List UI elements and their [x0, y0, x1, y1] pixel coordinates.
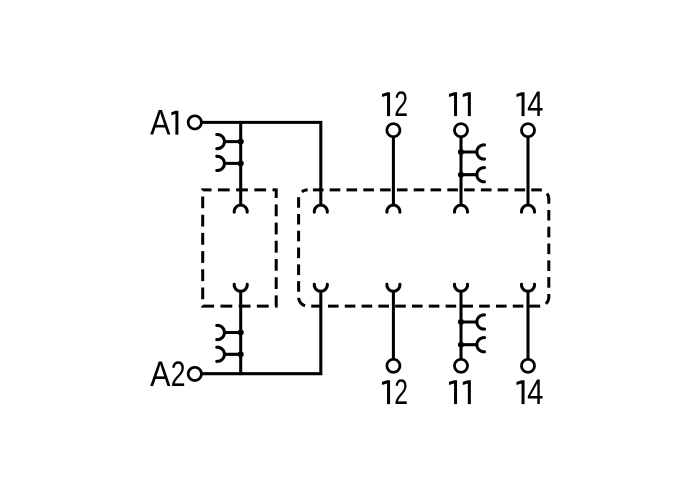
svg-text:A: A — [150, 103, 170, 142]
svg-text:2: 2 — [394, 86, 408, 124]
svg-text:A: A — [150, 354, 170, 393]
svg-text:2: 2 — [171, 355, 186, 394]
svg-text:4: 4 — [527, 373, 543, 412]
svg-text:2: 2 — [394, 374, 408, 412]
svg-text:4: 4 — [527, 85, 543, 124]
